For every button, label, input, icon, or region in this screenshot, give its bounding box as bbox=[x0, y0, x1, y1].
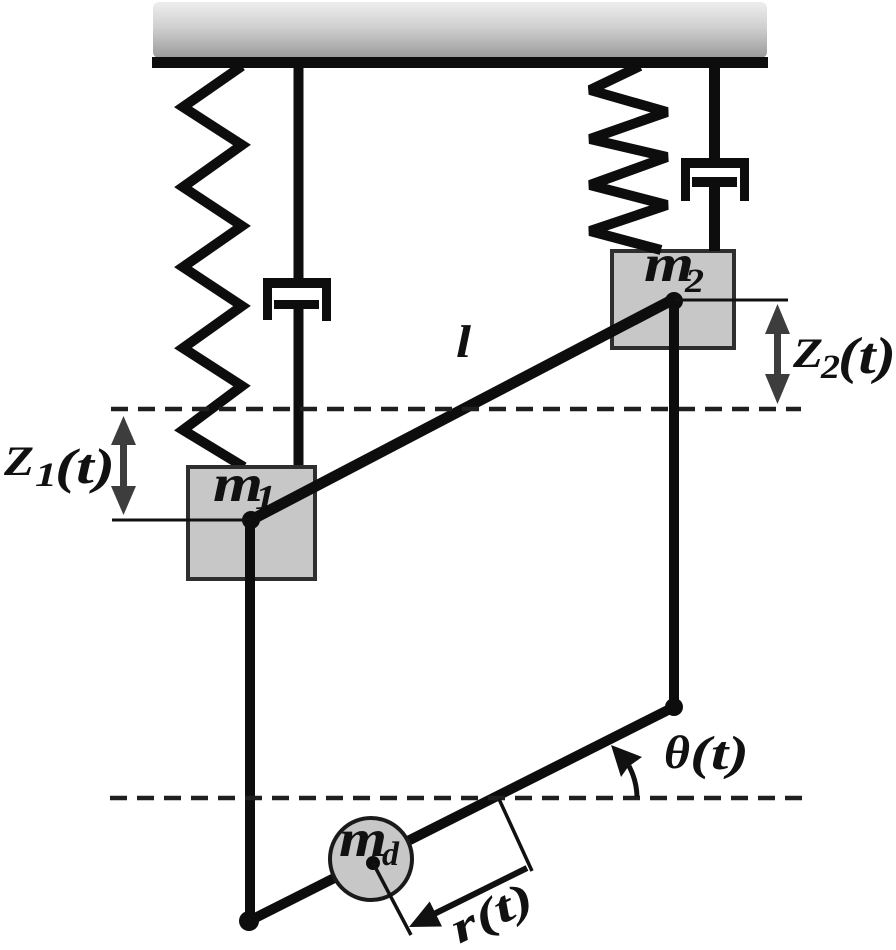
svg-text:2: 2 bbox=[820, 349, 840, 386]
svg-text:(t): (t) bbox=[838, 328, 896, 385]
rod l (link between m1 and m2) bbox=[251, 299, 674, 520]
damper c2 piston plate bbox=[692, 177, 737, 187]
theta arrowhead bbox=[611, 745, 642, 777]
r(t) lower tick bbox=[373, 863, 411, 935]
node m2 center dot bbox=[665, 292, 683, 310]
r(t) arrow shaft bbox=[434, 868, 527, 914]
wire: m2 reference thin line bbox=[674, 299, 788, 302]
damper c1 lower rod bbox=[294, 302, 304, 467]
svg-text:d: d bbox=[382, 836, 400, 873]
mass m2 box bbox=[612, 251, 734, 348]
r(t) arrowhead bbox=[409, 902, 442, 928]
damper c1 cylinder cup bbox=[263, 278, 331, 321]
node md dot bbox=[366, 856, 380, 870]
node: crank left pivot dot bbox=[239, 911, 259, 931]
damper c2 lower rod bbox=[709, 182, 720, 251]
theta arc arrow bbox=[629, 766, 637, 797]
lower datum dashed line bbox=[110, 796, 806, 801]
slider mass md disk bbox=[330, 818, 412, 900]
svg-text:l: l bbox=[456, 316, 471, 367]
wire: m2 pendulum drop bar bbox=[669, 301, 679, 707]
svg-text:(t): (t) bbox=[55, 438, 115, 494]
damper c2 cylinder cup bbox=[681, 158, 749, 201]
spring k2 (right spring) bbox=[590, 66, 667, 250]
node m1 center dot bbox=[242, 511, 260, 529]
node: crank right pivot dot bbox=[665, 698, 683, 716]
wire: m1 reference thin line bbox=[112, 519, 253, 522]
svg-text:1: 1 bbox=[35, 457, 57, 494]
svg-text:m: m bbox=[339, 810, 387, 868]
spring k1 (left spring) bbox=[183, 66, 244, 467]
arrow Z2 (double-headed) bbox=[765, 304, 790, 404]
arrow Z1 (double-headed) bbox=[111, 416, 136, 515]
r(t) upper tick bbox=[499, 799, 532, 871]
damper c1 upper rod bbox=[294, 66, 304, 283]
upper datum dashed line bbox=[111, 407, 801, 412]
svg-text:Z: Z bbox=[3, 439, 34, 485]
damper c2 upper rod bbox=[709, 66, 720, 163]
ceiling (fixed support, gradient slab) bbox=[153, 2, 767, 58]
svg-text:(t): (t) bbox=[690, 727, 749, 780]
svg-text:θ: θ bbox=[664, 727, 690, 779]
damper c1 piston plate bbox=[274, 300, 319, 309]
ceiling beam line bbox=[152, 57, 768, 68]
svg-text:2: 2 bbox=[684, 263, 704, 300]
svg-text:Z: Z bbox=[792, 331, 823, 377]
wire: m1 pendulum drop bar bbox=[245, 520, 255, 920]
crank rod (carries slider md) bbox=[249, 707, 674, 921]
mass m1 box bbox=[188, 467, 315, 579]
